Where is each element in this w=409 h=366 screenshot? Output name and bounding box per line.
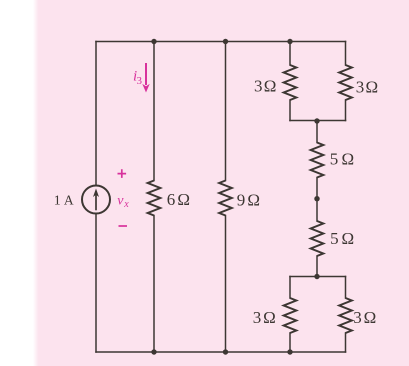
resistor R 3-ohm bottom-right xyxy=(339,298,352,333)
svg-text:Ω: Ω xyxy=(366,78,379,97)
svg-text:Ω: Ω xyxy=(247,190,260,209)
resistor R 3-ohm top-right xyxy=(339,65,352,100)
wire 5-ohm upper leads xyxy=(316,121,318,199)
svg-text:A: A xyxy=(64,193,74,208)
resistor R 3-ohm bottom-left xyxy=(284,298,297,333)
resistor R 3-ohm top-left xyxy=(284,65,297,100)
wire 5-ohm lower leads xyxy=(316,199,318,277)
wire bottom pair top bar xyxy=(290,276,346,278)
wire 6-ohm branch bottom lead xyxy=(153,216,155,353)
wire 6-ohm branch top lead xyxy=(153,42,155,181)
svg-text:3: 3 xyxy=(254,77,263,96)
wire left branch upper (source top lead) xyxy=(95,42,97,186)
svg-text:9: 9 xyxy=(237,190,246,209)
wire bottom-right 3-ohm leads xyxy=(345,277,347,353)
node between 5-ohm resistors xyxy=(314,196,319,201)
wire bottom-left 3-ohm leads xyxy=(289,277,291,353)
node top rail at 6-ohm xyxy=(151,39,156,44)
svg-text:6: 6 xyxy=(167,190,176,209)
svg-text:1: 1 xyxy=(54,194,61,209)
svg-text:3: 3 xyxy=(253,308,261,327)
svg-text:3: 3 xyxy=(137,75,143,87)
current arrow i3 xyxy=(142,63,149,93)
svg-text:5: 5 xyxy=(330,229,339,248)
resistor R 9-ohm xyxy=(219,181,232,216)
label plus sign xyxy=(118,169,127,178)
node top rail at 3-ohm pair xyxy=(287,39,292,44)
node top pair / 5-ohm xyxy=(314,118,319,123)
resistor R 5-ohm lower xyxy=(311,221,324,256)
svg-text:3: 3 xyxy=(356,78,365,97)
wire top-left 3-ohm leads xyxy=(289,42,291,121)
current source arrow xyxy=(93,189,99,211)
svg-text:5: 5 xyxy=(330,150,339,169)
node top rail at 9-ohm xyxy=(223,39,228,44)
node bottom rail at 6-ohm xyxy=(151,349,156,354)
wire top-right 3-ohm leads xyxy=(345,42,347,121)
svg-text:x: x xyxy=(123,199,129,210)
label minus sign xyxy=(119,225,128,227)
wire top rail xyxy=(96,41,346,43)
svg-text:3: 3 xyxy=(353,308,362,327)
wire left branch lower (source bottom lead) xyxy=(95,214,97,353)
svg-text:Ω: Ω xyxy=(264,77,277,96)
svg-text:Ω: Ω xyxy=(364,308,377,327)
svg-text:Ω: Ω xyxy=(342,229,355,248)
wire 9-ohm branch bottom lead xyxy=(225,216,227,353)
svg-text:v: v xyxy=(117,193,124,208)
wire top pair bottom bar xyxy=(290,120,346,122)
wire bottom rail xyxy=(96,351,346,353)
resistor R 6-ohm xyxy=(148,181,161,216)
svg-text:Ω: Ω xyxy=(342,150,355,169)
svg-text:Ω: Ω xyxy=(177,190,190,209)
svg-text:Ω: Ω xyxy=(263,308,276,327)
current source 1A circle xyxy=(82,186,110,214)
node bottom rail at 3-ohm pair xyxy=(287,349,292,354)
wire 9-ohm branch top lead xyxy=(225,42,227,181)
resistor R 5-ohm upper xyxy=(311,143,324,178)
node 5-ohm / bottom pair xyxy=(314,274,319,279)
node bottom rail at 9-ohm xyxy=(223,349,228,354)
